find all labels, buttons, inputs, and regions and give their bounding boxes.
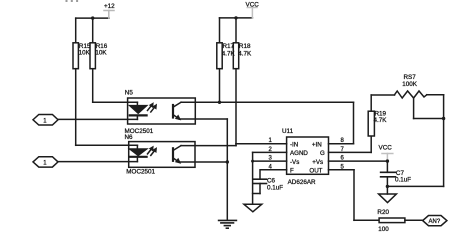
- svg-text:4.7K: 4.7K: [374, 117, 388, 124]
- svg-text:F: F: [290, 168, 294, 175]
- svg-text:AD626AR: AD626AR: [288, 179, 316, 186]
- svg-text:+12: +12: [104, 3, 115, 10]
- svg-text:U11: U11: [282, 128, 294, 135]
- svg-text:0.1uF: 0.1uF: [267, 185, 283, 192]
- svg-text:R20: R20: [377, 209, 389, 216]
- svg-text:4.7K: 4.7K: [222, 51, 236, 58]
- svg-text:R17: R17: [223, 43, 235, 50]
- svg-text:N6: N6: [125, 134, 134, 141]
- svg-text:AN?: AN?: [429, 219, 441, 225]
- svg-text:C6: C6: [267, 178, 276, 185]
- svg-text:100K: 100K: [402, 81, 418, 88]
- svg-text:AGND: AGND: [290, 150, 308, 157]
- svg-text:N5: N5: [125, 90, 134, 97]
- svg-text:R18: R18: [239, 43, 251, 50]
- svg-text:0.1uF: 0.1uF: [395, 177, 411, 184]
- svg-text:+Vs: +Vs: [312, 159, 323, 166]
- svg-text:G: G: [320, 150, 325, 157]
- svg-text:OUT: OUT: [309, 168, 322, 175]
- svg-text:-IN: -IN: [290, 141, 298, 148]
- svg-text:MOC2501: MOC2501: [126, 168, 155, 175]
- svg-text:RS7: RS7: [404, 74, 417, 81]
- svg-text:+IN: +IN: [312, 141, 322, 148]
- svg-text:VCC: VCC: [379, 145, 393, 152]
- svg-text:10K: 10K: [79, 50, 91, 57]
- svg-text:10K: 10K: [95, 50, 107, 57]
- svg-text:4.7K: 4.7K: [238, 51, 252, 58]
- svg-text:-Vs: -Vs: [290, 159, 299, 166]
- svg-text:VCC: VCC: [246, 2, 260, 9]
- svg-text:100: 100: [378, 226, 389, 233]
